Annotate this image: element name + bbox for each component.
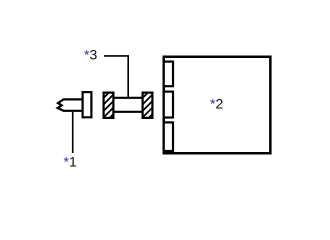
probe shaft and tip (component *1) <box>58 99 82 110</box>
svg-text:*2: *2 <box>210 95 223 111</box>
leader line *3 <box>104 56 128 99</box>
slot 2 <box>164 92 173 118</box>
probe head rectangle <box>83 92 92 117</box>
connecting bar top line <box>113 97 143 99</box>
slot 1 <box>164 62 173 87</box>
connecting bar bottom line <box>113 111 143 113</box>
left hatched bushing (component *3) <box>104 93 114 118</box>
leader line *1 <box>72 112 74 153</box>
right hatched bushing (component *3) <box>143 93 153 118</box>
svg-text:*1: *1 <box>64 154 77 170</box>
slot 3 <box>164 122 173 151</box>
svg-text:*3: *3 <box>84 47 97 63</box>
connector box (component *2) <box>164 57 271 154</box>
